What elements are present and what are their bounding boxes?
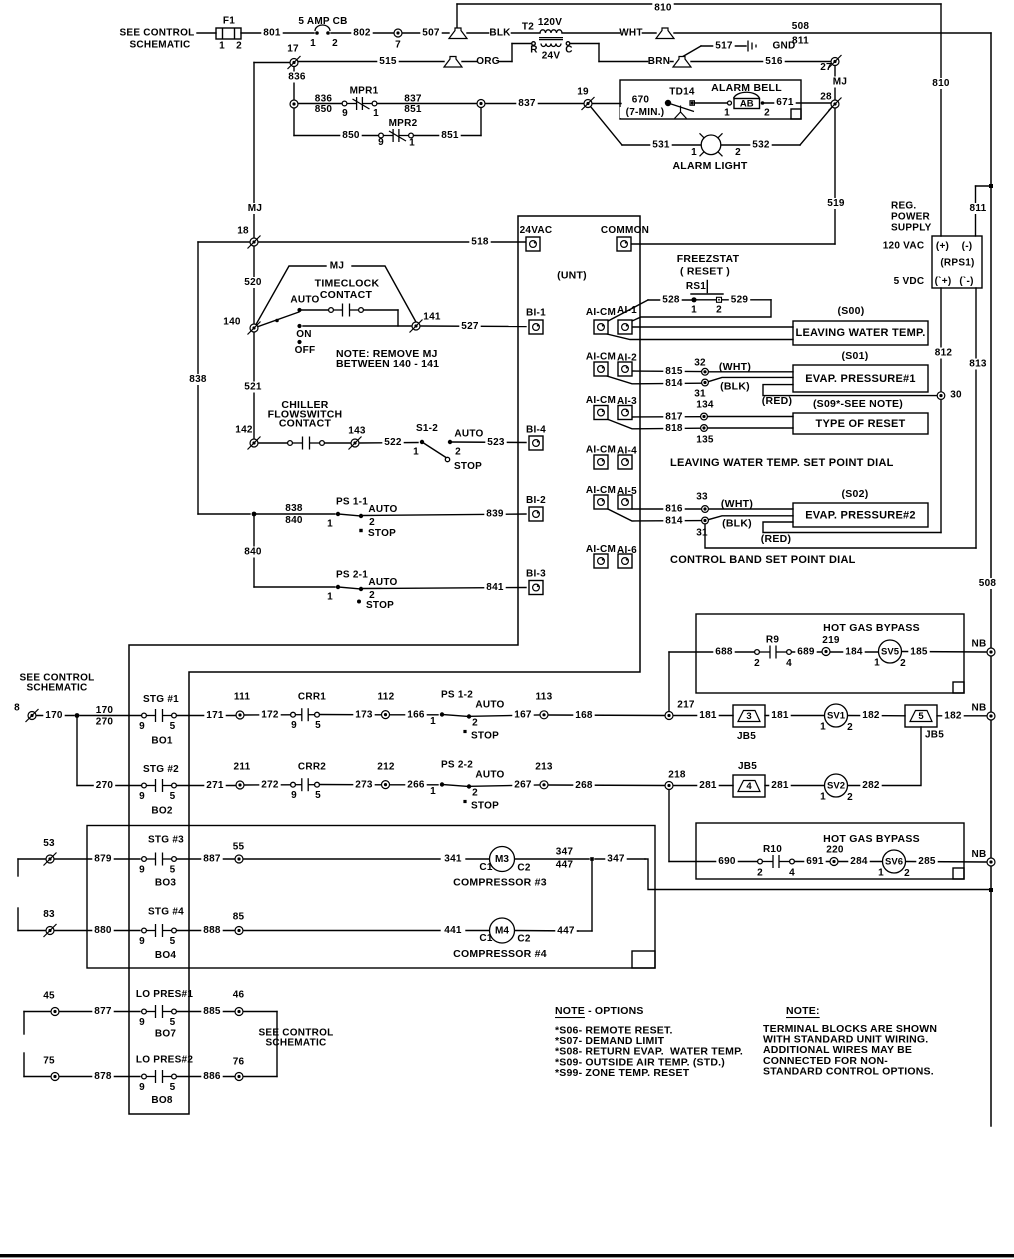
label 516 xyxy=(763,56,784,67)
contact CRR1 xyxy=(291,708,320,721)
svg-text:BO8: BO8 xyxy=(151,1095,173,1106)
wire 173 xyxy=(319,714,381,716)
junction 170/270 xyxy=(75,713,80,718)
svg-text:TD14: TD14 xyxy=(669,87,695,98)
label WHT xyxy=(620,28,641,39)
svg-text:COMPRESSOR #4: COMPRESSOR #4 xyxy=(453,948,547,960)
terminal AI-5 xyxy=(618,495,632,509)
label 839 xyxy=(484,509,505,520)
svg-text:GND: GND xyxy=(773,41,796,52)
svg-text:282: 282 xyxy=(862,780,880,791)
terminal AI-CM AI-4 xyxy=(594,455,608,469)
svg-text:LO PRES#2: LO PRES#2 xyxy=(136,1055,193,1066)
junction dot xyxy=(336,585,340,589)
junction xyxy=(359,529,362,532)
svg-text:SCHEMATIC: SCHEMATIC xyxy=(27,683,88,694)
S01 EVAP PRESSURE1 box xyxy=(793,365,928,392)
svg-text:167: 167 xyxy=(514,710,532,721)
svg-text:LEAVING WATER TEMP. SET POINT: LEAVING WATER TEMP. SET POINT DIAL xyxy=(670,457,894,469)
wire BLK S02 xyxy=(709,516,793,520)
svg-text:31: 31 xyxy=(696,528,708,539)
label 840 xyxy=(242,547,263,558)
svg-text:3: 3 xyxy=(746,711,751,722)
wire to GND xyxy=(682,46,701,57)
svg-text:268: 268 xyxy=(575,780,593,791)
svg-text:(RED): (RED) xyxy=(761,533,791,545)
wire 170/270 xyxy=(80,715,141,717)
svg-text:1: 1 xyxy=(724,108,730,119)
contact STG1 BO1 xyxy=(142,709,177,722)
bell terminal 2 xyxy=(761,101,765,105)
PS2-2 blade xyxy=(442,785,469,787)
wire 347 to 508 bus xyxy=(645,859,991,890)
flag WHT xyxy=(656,28,674,39)
svg-text:5: 5 xyxy=(170,791,176,802)
coil SV1 xyxy=(825,704,848,727)
label 522 xyxy=(382,437,403,448)
svg-text:134: 134 xyxy=(696,400,714,411)
wire into alarm box xyxy=(592,103,621,105)
S02 EVAP PRESSURE2 box xyxy=(793,503,928,527)
svg-text:5: 5 xyxy=(170,1082,176,1093)
contact MPR2 xyxy=(379,129,414,142)
label 267 xyxy=(512,780,533,791)
svg-text:(S02): (S02) xyxy=(842,488,869,500)
svg-text:689: 689 xyxy=(797,647,815,658)
wire 519 MJ vertical xyxy=(834,108,836,244)
terminal 17 xyxy=(288,56,301,69)
terminal AI-CM AI-5 xyxy=(594,495,608,509)
svg-text:(-): (-) xyxy=(962,241,973,252)
terminal AI-1 xyxy=(618,320,632,334)
wire 528 xyxy=(648,299,691,301)
svg-text:2: 2 xyxy=(472,788,478,799)
RS1 contact 2 xyxy=(717,297,722,302)
junction dot xyxy=(359,587,363,591)
svg-text:880: 880 xyxy=(94,925,112,936)
ground symbol xyxy=(748,41,756,52)
svg-text:143: 143 xyxy=(348,426,366,437)
wire 879 xyxy=(54,858,140,860)
terminal 28 xyxy=(829,98,842,111)
svg-text:111: 111 xyxy=(234,692,251,703)
svg-text:STOP: STOP xyxy=(454,461,482,472)
bracket 53 xyxy=(17,859,19,876)
wire BRN xyxy=(599,61,673,63)
label 837 xyxy=(516,98,537,109)
label BLK xyxy=(489,28,510,39)
svg-text:BO3: BO3 xyxy=(155,878,177,889)
svg-text:2: 2 xyxy=(900,658,906,669)
svg-text:447: 447 xyxy=(556,860,574,871)
wire xyxy=(258,442,290,444)
coil SV6 xyxy=(883,850,906,873)
svg-text:76: 76 xyxy=(233,1057,245,1068)
wire 802 xyxy=(331,32,394,34)
contact STG4 BO4 xyxy=(142,924,177,937)
RS1 bar xyxy=(691,293,723,295)
svg-text:5: 5 xyxy=(170,721,176,732)
transformer T2 xyxy=(532,30,570,47)
wire 518 xyxy=(198,241,526,243)
label 531 xyxy=(650,140,671,151)
svg-text:9: 9 xyxy=(139,1017,145,1028)
svg-text:2: 2 xyxy=(716,305,722,316)
svg-text:220: 220 xyxy=(826,845,844,856)
terminal 45 xyxy=(51,1008,59,1016)
svg-text:ALARM LIGHT: ALARM LIGHT xyxy=(672,160,747,172)
label 270 xyxy=(94,780,115,791)
wire 818 xyxy=(607,419,700,429)
wire 508/811 to right bus xyxy=(674,32,991,34)
svg-text:STOP: STOP xyxy=(366,600,394,611)
svg-text:27: 27 xyxy=(820,62,832,73)
wire 508 right bus xyxy=(990,33,992,1126)
svg-text:STANDARD CONTROL OPTIONS.: STANDARD CONTROL OPTIONS. xyxy=(763,1065,934,1077)
wire elbow down right xyxy=(598,44,600,62)
svg-text:MJ: MJ xyxy=(248,203,262,214)
wire down to 270 xyxy=(76,716,78,786)
terminal 217 xyxy=(665,712,673,720)
label 507 xyxy=(420,28,441,39)
svg-text:9: 9 xyxy=(139,721,145,732)
svg-text:341: 341 xyxy=(444,854,462,865)
timeclock contact xyxy=(329,304,364,317)
svg-text:MJ: MJ xyxy=(330,261,344,272)
label 182b xyxy=(942,711,963,722)
wire 270 xyxy=(77,785,141,787)
terminal 143 xyxy=(349,437,362,450)
terminal AI-CM AI-3 xyxy=(594,406,608,420)
label 517 xyxy=(713,41,734,52)
bracket 75 xyxy=(23,1053,25,1077)
terminal NB3 xyxy=(987,858,995,866)
stub 134 to box xyxy=(708,416,793,418)
junction dot xyxy=(440,782,444,786)
svg-text:BI-4: BI-4 xyxy=(526,425,546,436)
wire 817 xyxy=(632,416,700,418)
svg-text:170: 170 xyxy=(96,705,114,716)
svg-text:SV5: SV5 xyxy=(881,646,900,657)
label 273 xyxy=(353,779,374,790)
svg-text:508: 508 xyxy=(979,578,997,589)
terminal NB2 xyxy=(987,712,995,720)
wire 53 stub xyxy=(18,858,46,860)
svg-text:(UNT): (UNT) xyxy=(557,270,587,282)
svg-text:1: 1 xyxy=(219,41,225,52)
S1-2 blade xyxy=(422,442,446,458)
svg-text:281: 281 xyxy=(771,780,789,791)
label 271 xyxy=(204,780,225,791)
wire 520/521 vertical xyxy=(253,247,255,438)
svg-text:181: 181 xyxy=(699,710,717,721)
svg-text:PS 2-1: PS 2-1 xyxy=(336,570,368,581)
svg-text:887: 887 xyxy=(203,854,221,865)
wire 877 xyxy=(59,1011,140,1013)
wire WHT S02 xyxy=(709,508,793,510)
terminal 19 xyxy=(582,97,595,110)
svg-text:19: 19 xyxy=(577,87,589,98)
svg-text:EVAP. PRESSURE#1: EVAP. PRESSURE#1 xyxy=(805,373,916,385)
svg-text:R9: R9 xyxy=(766,635,779,646)
label 181a xyxy=(697,710,718,721)
terminal AI-CM AI-6 xyxy=(594,554,608,568)
svg-text:AUTO: AUTO xyxy=(368,577,397,588)
wire 447 xyxy=(515,930,579,933)
svg-text:688: 688 xyxy=(715,647,733,658)
wire 266 xyxy=(390,784,438,786)
svg-text:182: 182 xyxy=(862,710,880,721)
svg-text:CONTACT: CONTACT xyxy=(279,418,332,430)
svg-text:838: 838 xyxy=(285,503,303,514)
wire 810 vertical xyxy=(940,4,942,236)
wire 689 xyxy=(791,651,824,653)
svg-text:LEAVING WATER TEMP.: LEAVING WATER TEMP. xyxy=(795,327,925,339)
label 7-MIN xyxy=(620,107,670,118)
terminal 113 xyxy=(540,711,548,719)
label 841 xyxy=(484,582,505,593)
label 529 xyxy=(729,295,750,306)
svg-text:AI-CM: AI-CM xyxy=(586,352,616,363)
motor M4 xyxy=(490,918,515,943)
svg-text:46: 46 xyxy=(233,990,245,1001)
terminal 30 xyxy=(937,392,945,400)
svg-text:1: 1 xyxy=(691,147,697,158)
wire 76 out xyxy=(243,1076,277,1078)
wire ORG xyxy=(462,61,512,63)
svg-text:C2: C2 xyxy=(517,934,530,945)
wire MPR left leg xyxy=(293,108,295,136)
svg-text:AUTO: AUTO xyxy=(475,700,504,711)
wire 880 xyxy=(54,930,140,932)
wire 75 stub xyxy=(24,1076,51,1078)
wire R to elbow xyxy=(512,43,532,45)
svg-text:817: 817 xyxy=(665,412,683,423)
svg-text:212: 212 xyxy=(377,762,395,773)
svg-text:28: 28 xyxy=(820,92,832,103)
wire 690 xyxy=(669,861,757,863)
svg-text:285: 285 xyxy=(918,856,936,867)
svg-text:M3: M3 xyxy=(495,854,509,865)
alarm bell enclosure xyxy=(620,80,801,119)
svg-text:(RED): (RED) xyxy=(762,395,792,407)
label 817 xyxy=(663,412,684,423)
bracket 83 xyxy=(17,908,19,931)
svg-text:1: 1 xyxy=(327,592,333,603)
svg-text:211: 211 xyxy=(234,762,251,773)
svg-text:218: 218 xyxy=(668,770,686,781)
svg-text:T2: T2 xyxy=(522,22,534,33)
svg-text:521: 521 xyxy=(244,382,262,393)
svg-text:BO4: BO4 xyxy=(155,950,177,961)
label 887 xyxy=(201,854,222,865)
terminal 7 xyxy=(394,29,402,37)
svg-text:COMMON: COMMON xyxy=(601,225,649,236)
wire 184 xyxy=(830,651,878,653)
hot gas bypass box 1 xyxy=(696,614,964,693)
terminal 213 xyxy=(540,781,548,789)
svg-text:AUTO: AUTO xyxy=(475,770,504,781)
wire 281a xyxy=(673,785,733,787)
svg-text:812: 812 xyxy=(935,348,953,359)
svg-text:271: 271 xyxy=(206,780,224,791)
svg-text:SCHEMATIC: SCHEMATIC xyxy=(130,40,191,51)
label 518 xyxy=(469,237,490,248)
svg-text:508: 508 xyxy=(792,21,810,32)
svg-text:BI-3: BI-3 xyxy=(526,569,546,580)
svg-text:267: 267 xyxy=(514,780,532,791)
wire BLK xyxy=(467,32,540,34)
svg-text:690: 690 xyxy=(718,856,736,867)
svg-text:516: 516 xyxy=(765,56,783,67)
svg-text:BLK: BLK xyxy=(489,28,511,39)
TYPE OF RESET box xyxy=(793,413,928,434)
terminal 27 xyxy=(829,55,842,68)
svg-text:841: 841 xyxy=(486,582,504,593)
svg-text:TYPE OF RESET: TYPE OF RESET xyxy=(815,418,905,430)
svg-text:PS 2-2: PS 2-2 xyxy=(441,760,473,771)
svg-text:C2: C2 xyxy=(517,863,530,874)
wire 688 xyxy=(669,651,754,653)
svg-text:31: 31 xyxy=(694,389,706,400)
wire 267 xyxy=(471,785,540,786)
wire xyxy=(466,930,490,932)
svg-text:HOT GAS BYPASS: HOT GAS BYPASS xyxy=(823,622,920,634)
wire 517 xyxy=(701,45,746,47)
alarm light circle xyxy=(701,135,721,155)
svg-text:2: 2 xyxy=(847,792,853,803)
label 268 xyxy=(573,780,594,791)
wire 83 stub xyxy=(18,930,46,932)
label 515 xyxy=(377,56,398,67)
svg-text:55: 55 xyxy=(233,842,245,853)
label 167 xyxy=(512,710,533,721)
wire 45 stub xyxy=(24,1011,51,1013)
wire right bracket 46-76 xyxy=(276,1012,278,1077)
hot gas bypass box 2 xyxy=(696,823,964,879)
svg-text:9: 9 xyxy=(378,137,384,148)
svg-text:4: 4 xyxy=(746,781,752,792)
svg-text:520: 520 xyxy=(244,277,262,288)
wire 170 stub xyxy=(36,715,74,717)
svg-text:5: 5 xyxy=(315,720,321,731)
terminal 141 xyxy=(410,320,423,333)
junction 347/508 xyxy=(989,888,993,892)
label 171 xyxy=(204,710,225,721)
junction xyxy=(463,730,466,733)
svg-text:CRR1: CRR1 xyxy=(298,692,326,703)
coil SV2 xyxy=(825,774,848,797)
svg-text:32: 32 xyxy=(694,358,706,369)
svg-text:142: 142 xyxy=(235,425,253,436)
wire xyxy=(244,714,290,716)
svg-text:836: 836 xyxy=(315,94,333,105)
svg-text:SV2: SV2 xyxy=(827,780,845,791)
label 670 xyxy=(630,95,651,106)
compressor enclosure box xyxy=(87,826,655,969)
svg-text:( RESET ): ( RESET ) xyxy=(680,266,730,278)
svg-text:(7-MIN.): (7-MIN.) xyxy=(626,107,665,118)
label 812 xyxy=(933,348,954,359)
label 877 xyxy=(92,1006,113,1017)
label 691 xyxy=(804,856,825,867)
motor M3 xyxy=(490,847,515,872)
svg-text:(S09*-SEE NOTE): (S09*-SEE NOTE) xyxy=(813,398,903,410)
wire AUTO to timeclock xyxy=(302,309,329,311)
svg-text:STG #2: STG #2 xyxy=(143,764,179,775)
svg-text:671: 671 xyxy=(776,97,794,108)
wire 273 xyxy=(319,784,381,786)
label 671 xyxy=(774,97,795,108)
svg-text:814: 814 xyxy=(665,516,683,527)
terminal AI-CM AI-1 xyxy=(594,320,608,334)
svg-text:PS 1-1: PS 1-1 xyxy=(336,497,368,508)
svg-text:18: 18 xyxy=(237,226,249,237)
svg-text:SCHEMATIC: SCHEMATIC xyxy=(266,1038,327,1049)
svg-text:AI-1: AI-1 xyxy=(617,305,637,316)
svg-text:9: 9 xyxy=(139,791,145,802)
coil SV5 xyxy=(879,640,902,663)
terminal AI-6 xyxy=(618,554,632,568)
svg-text:670: 670 xyxy=(632,95,650,106)
label 689 xyxy=(795,647,816,658)
svg-text:2: 2 xyxy=(735,147,741,158)
terminal 218 xyxy=(665,782,673,790)
svg-text:9: 9 xyxy=(139,936,145,947)
hgb1 notch xyxy=(953,682,964,693)
junction xyxy=(463,800,466,803)
svg-text:522: 522 xyxy=(384,437,402,448)
wire 886 xyxy=(176,1076,235,1078)
svg-text:217: 217 xyxy=(677,700,695,711)
stub 135 to box xyxy=(708,427,793,429)
JB5 block 3 xyxy=(733,705,765,727)
UNT controller + BO column outline xyxy=(129,216,640,1114)
svg-text:888: 888 xyxy=(203,925,221,936)
terminal 18 xyxy=(248,236,261,249)
svg-text:219: 219 xyxy=(822,635,840,646)
wire 836/850 xyxy=(298,103,341,105)
svg-text:BO2: BO2 xyxy=(151,806,173,817)
chiller flowswitch contact xyxy=(288,437,325,450)
wire 838/840 to PS1-1 xyxy=(254,513,335,515)
svg-text:1: 1 xyxy=(373,108,379,119)
svg-text:1: 1 xyxy=(691,305,697,316)
svg-text:STOP: STOP xyxy=(471,801,499,812)
svg-text:879: 879 xyxy=(94,854,112,865)
svg-text:CRR2: CRR2 xyxy=(298,762,326,773)
terminal 46 xyxy=(235,1008,243,1016)
wire 810 drop to flag xyxy=(456,4,458,28)
svg-text:528: 528 xyxy=(662,295,680,306)
wire xyxy=(222,28,224,39)
wire 837 xyxy=(485,103,584,105)
terminal AI-3 xyxy=(618,406,632,420)
circle xyxy=(445,457,449,461)
wire 839 xyxy=(363,514,526,516)
page bottom border xyxy=(0,1254,1014,1257)
terminal 83 xyxy=(44,924,57,937)
svg-text:NB: NB xyxy=(972,703,987,714)
wire 284 xyxy=(838,861,882,863)
svg-text:347: 347 xyxy=(556,847,574,858)
svg-text:691: 691 xyxy=(806,856,824,867)
svg-text:AB: AB xyxy=(740,99,754,110)
svg-text:182: 182 xyxy=(944,711,962,722)
svg-text:851: 851 xyxy=(441,130,459,141)
wire xyxy=(234,28,236,39)
OFF position dot xyxy=(297,340,301,344)
